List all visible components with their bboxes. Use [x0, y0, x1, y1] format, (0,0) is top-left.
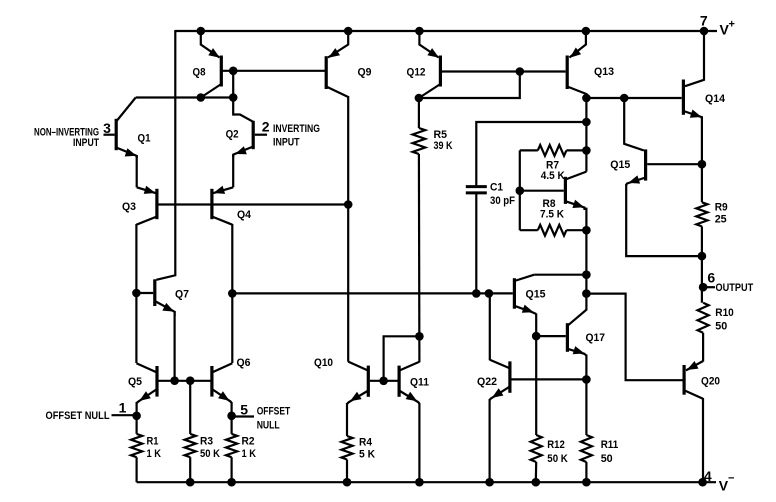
wire Q22 collector column [489, 293, 491, 360]
node pin 4 junction [698, 478, 707, 487]
svg-text:7: 7 [700, 12, 708, 28]
wire Q12 collector [419, 84, 441, 98]
svg-text:39 K: 39 K [434, 140, 453, 152]
transistor Q22 [508, 361, 511, 392]
transistor Q1 [115, 119, 118, 150]
node base tie to collector bus [229, 93, 238, 102]
svg-text:Q7: Q7 [175, 289, 189, 301]
transistor Q15 (middle) [513, 278, 516, 309]
svg-text:Q13: Q13 [594, 66, 614, 78]
wire Q13 emitter from V+ rail [569, 31, 586, 58]
wire Q12/Q13 base link [442, 70, 566, 72]
svg-text:30 pF: 30 pF [490, 195, 515, 207]
node Q15 emitter to output column [698, 252, 707, 261]
wire Q15 emitter return [626, 184, 702, 256]
resistor R3 [189, 381, 191, 434]
wire Q17 emitter column [585, 355, 587, 436]
transistor Q7 [153, 279, 156, 306]
wire Q3/Q4 base rail [157, 203, 348, 205]
svg-text:R2: R2 [242, 435, 255, 447]
wire Q13 collector node column [585, 93, 587, 172]
transistor Q9 [325, 56, 328, 89]
wire Q8 collector bus (y=97.5) [136, 96, 234, 98]
svg-text:R9: R9 [715, 202, 728, 214]
node Q22 collector junction [485, 289, 494, 298]
node Q12/Q13 base junction [516, 67, 525, 76]
wire Q7 collector to V+ rail [156, 31, 175, 280]
transistor Q17 [566, 323, 569, 352]
wire Q15 emitter to Q17 base [535, 314, 537, 436]
svg-text:4: 4 [704, 468, 712, 484]
node Q13 emitter junction on rail [582, 27, 591, 36]
svg-text:Q17: Q17 [586, 332, 606, 344]
node R3 bottom junction [186, 478, 195, 487]
transistor Q13 [566, 56, 569, 90]
svg-text:Q14: Q14 [705, 93, 726, 105]
node Q12 emitter junction on rail [415, 27, 424, 36]
svg-text:Q15: Q15 [610, 159, 630, 171]
wire Q8/Q9 base link [221, 70, 326, 72]
svg-text:NULL: NULL [257, 420, 280, 432]
node C1 bottom junction [472, 289, 481, 298]
wire Q9 collector column to Q10 [347, 96, 349, 362]
svg-text:Q2: Q2 [226, 128, 239, 140]
svg-text:Q1: Q1 [138, 133, 151, 145]
node Q10/Q11 base junction [379, 377, 388, 386]
transistor Q8 [220, 56, 223, 87]
node tie junction on R5 column [415, 332, 424, 341]
svg-text:OFFSET NULL: OFFSET NULL [46, 410, 110, 422]
svg-text:Q20: Q20 [701, 375, 720, 387]
resistor R4 [341, 436, 352, 460]
wire Q9 emitter from V+ rail [328, 31, 348, 58]
wire Q8 base-collector tie down [232, 71, 234, 98]
node R11 bottom junction [582, 478, 591, 487]
node Q7 base junction [132, 289, 141, 298]
node Q15 collector takeoff [620, 94, 629, 103]
svg-text:4.5 K: 4.5 K [541, 170, 565, 182]
wire V- rail (pin 4 bus) [137, 481, 716, 483]
svg-text:R11: R11 [601, 439, 619, 451]
svg-text:Q4: Q4 [237, 209, 252, 221]
node offset null 5 junction [227, 412, 236, 421]
svg-text:R1: R1 [147, 435, 159, 447]
wire Q12 collector-base tie [419, 72, 520, 99]
svg-text:R3: R3 [200, 435, 213, 447]
node Q17 base junction [532, 332, 541, 341]
transistor Q14 [682, 80, 685, 115]
svg-text:Q9: Q9 [358, 67, 372, 79]
wire output lead [703, 286, 715, 288]
node Q22 base junction [582, 375, 591, 384]
wire Q5/Q6 base rail [157, 380, 212, 382]
node output junction [699, 283, 708, 292]
svg-text:OUTPUT: OUTPUT [716, 282, 754, 294]
wire Q4 collector column [231, 224, 233, 363]
node Q9 emitter junction on rail [344, 27, 353, 36]
node R8 right junction [582, 226, 591, 235]
wire Q2 emitter to Q4 [232, 155, 234, 187]
node Q15 base junction [698, 160, 707, 169]
wire offset null 5 lead [232, 415, 254, 417]
transistor Q20 [682, 365, 685, 395]
svg-text:Q12: Q12 [407, 67, 426, 79]
svg-text:50 K: 50 K [200, 448, 220, 460]
transistor Q6 [210, 366, 213, 397]
wire Q10/Q11 base link [370, 380, 398, 382]
svg-text:5 K: 5 K [359, 449, 375, 461]
node offset null 1 junction [132, 412, 141, 421]
capacitor C1 [476, 122, 586, 186]
wire Q8 collector [201, 84, 222, 98]
node R2 bottom junction [227, 478, 236, 487]
transistor Q4 [210, 189, 213, 219]
resistor R5 [418, 98, 420, 128]
node Q8 base junction [229, 67, 238, 76]
transistor Q3 [155, 189, 158, 219]
wire Q14 collector to pin7 [685, 31, 704, 86]
node Q17 collector junction [582, 289, 591, 298]
resistor R8 [520, 229, 538, 231]
svg-text:Q10: Q10 [314, 357, 333, 369]
transistor Q2 [252, 121, 255, 149]
svg-text:1 K: 1 K [147, 448, 162, 460]
wire VBE emitter to R8 node column [585, 208, 587, 294]
node Q8 collector junction [197, 93, 206, 102]
svg-text:50: 50 [601, 453, 613, 465]
svg-text:7.5 K: 7.5 K [540, 209, 564, 221]
svg-text:50: 50 [715, 321, 727, 333]
transistor Q15 (current limit) [644, 149, 647, 180]
svg-text:INVERTING: INVERTING [273, 123, 320, 135]
node R4 bottom junction [343, 478, 352, 487]
wire to Q2 collector [233, 98, 253, 122]
node Q9 collector to base rail [344, 200, 353, 209]
resistor R12 [531, 435, 542, 462]
resistor R10 [698, 303, 709, 333]
resistor R1 [136, 416, 138, 434]
svg-text:+: + [729, 19, 735, 31]
svg-text:Q8: Q8 [193, 67, 206, 79]
transistor Q11 [398, 366, 401, 397]
svg-text:R4: R4 [359, 437, 373, 449]
svg-text:−: − [728, 473, 734, 485]
node R12 bottom junction [532, 478, 541, 487]
svg-text:INPUT: INPUT [273, 137, 300, 149]
node R7 right junction [582, 146, 591, 155]
svg-text:INPUT: INPUT [73, 137, 99, 149]
node Q11 emitter bottom junction [415, 478, 424, 487]
node Q15 collector bus junction [582, 270, 591, 279]
wire Q22 base link [512, 378, 587, 380]
wire Q8 emitter from V+ rail [201, 31, 220, 58]
node Q4/Q6 collector junction [228, 289, 237, 298]
svg-text:Q3: Q3 [122, 201, 136, 213]
svg-text:C1: C1 [490, 182, 503, 194]
wire R7/R8 left column [519, 150, 521, 230]
wire V+ rail (pin 7 bus) [174, 30, 717, 32]
transistor Q12 [439, 56, 442, 87]
node Q8 emitter junction on rail [197, 27, 206, 36]
node Q12 collector junction [415, 94, 424, 103]
svg-text:Q5: Q5 [128, 376, 142, 388]
svg-text:R10: R10 [715, 307, 734, 319]
wire Q3 collector column [135, 224, 137, 363]
node pin 7 junction [700, 27, 709, 36]
resistor R2 [231, 416, 233, 434]
node C1 top takeoff [582, 118, 591, 127]
resistor R9 [696, 202, 707, 226]
wire Q12 emitter from V+ rail [419, 31, 438, 58]
svg-text:25: 25 [715, 214, 727, 226]
resistor R7 [520, 149, 538, 151]
node VBE multiplier base junction [516, 186, 525, 195]
node Q7 emitter junction [170, 376, 179, 385]
svg-text:R12: R12 [547, 439, 565, 451]
wire Q13 collector [567, 87, 586, 95]
node R3 top junction [186, 376, 195, 385]
wire Q7 emitter to Q5/Q6 base rail [174, 311, 176, 381]
svg-text:1: 1 [119, 400, 127, 416]
transistor Q5 [155, 366, 158, 397]
svg-text:1 K: 1 K [242, 448, 257, 460]
node Q14 base takeoff [582, 94, 591, 103]
wire Q1 emitter to Q3 [136, 155, 138, 187]
svg-text:Q15: Q15 [526, 288, 546, 300]
svg-text:50 K: 50 K [547, 453, 568, 465]
wire Q20 base path [586, 294, 683, 381]
svg-text:Q6: Q6 [237, 357, 251, 369]
wire Q14 emitter column [701, 117, 703, 203]
transistor Q10 [367, 366, 370, 397]
wire Q14 base line [586, 97, 681, 99]
svg-text:Q11: Q11 [410, 377, 429, 389]
wire Q15 collector link [534, 274, 586, 276]
wire offset null 1 lead [112, 414, 137, 416]
svg-text:Q22: Q22 [477, 376, 497, 388]
node Q22 emitter bottom junction [485, 478, 494, 487]
transistor VBE multiplier (unlabeled) [564, 177, 567, 204]
svg-text:2: 2 [262, 119, 270, 135]
wire Q9 collector [326, 87, 348, 98]
resistor R11 [581, 435, 592, 462]
svg-text:6: 6 [707, 270, 715, 286]
svg-text:5: 5 [240, 402, 248, 418]
wire Q4-Q6 collector node to Q15 base [232, 292, 513, 294]
svg-text:3: 3 [103, 120, 111, 136]
svg-text:OFFSET: OFFSET [257, 406, 291, 418]
wire base tie to Q11 collector [384, 336, 420, 381]
